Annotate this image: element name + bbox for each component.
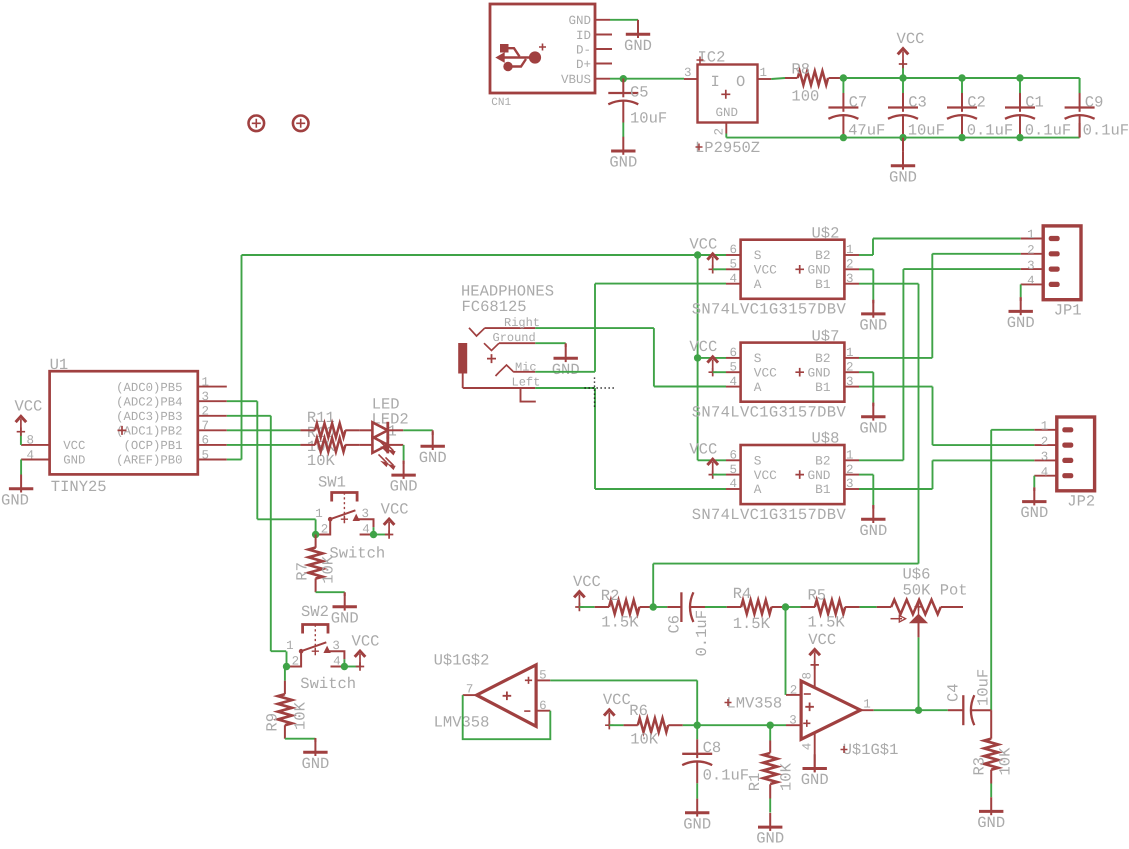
CN1 pin GND stub bbox=[595, 19, 610, 21]
svg-text:S: S bbox=[754, 454, 762, 469]
power symbol VCC at opamp bbox=[811, 661, 819, 669]
svg-text:GND: GND bbox=[807, 263, 830, 278]
regulator IC2 outline bbox=[698, 65, 758, 123]
JP1 pin 4 stub bbox=[1021, 283, 1043, 285]
capacitor C2 bbox=[961, 93, 963, 112]
svg-text:3: 3 bbox=[1041, 450, 1049, 464]
IC2 pin 2 stub bbox=[725, 123, 727, 134]
svg-text:1.5K: 1.5K bbox=[808, 614, 846, 632]
svg-text:GND: GND bbox=[807, 468, 830, 483]
U$8 pin 6 stub bbox=[726, 459, 741, 461]
wire Left net bbox=[535, 387, 595, 389]
U$2 pin 2 stub bbox=[844, 268, 859, 270]
wire junction to C6 bbox=[653, 606, 667, 608]
svg-text:2: 2 bbox=[1041, 435, 1049, 449]
svg-text:VCC: VCC bbox=[573, 573, 601, 591]
svg-text:1: 1 bbox=[863, 697, 871, 711]
JP2 pin pad 2 bbox=[1062, 443, 1073, 448]
jack tip stub bbox=[521, 388, 536, 402]
svg-text:CN1: CN1 bbox=[491, 97, 511, 109]
wire LED1 to ground bbox=[403, 429, 433, 431]
switch SW2 pin1-2 path bbox=[287, 651, 302, 666]
svg-text:SW1: SW1 bbox=[318, 473, 346, 491]
svg-text:1: 1 bbox=[846, 346, 854, 360]
svg-text:3: 3 bbox=[202, 390, 210, 404]
junction select at U$2 bbox=[694, 251, 701, 258]
junction rail/C1 bbox=[1016, 74, 1023, 81]
ground symbol at R9 bbox=[314, 738, 316, 756]
CN1 pin D- stub bbox=[595, 48, 612, 50]
svg-text:B1: B1 bbox=[815, 482, 831, 497]
wire rail to C2 bbox=[961, 78, 963, 93]
resistor R9 bbox=[284, 681, 286, 695]
power symbol VCC at R6 bbox=[605, 721, 613, 729]
capacitor C8 bbox=[696, 739, 698, 758]
CN1 pin VBUS stub bbox=[595, 78, 610, 80]
switch SW2 bracket bbox=[303, 625, 328, 634]
svg-text:GND: GND bbox=[331, 609, 359, 627]
svg-text:(ADC0)PB5: (ADC0)PB5 bbox=[116, 381, 182, 395]
svg-text:C1: C1 bbox=[1025, 94, 1044, 112]
svg-text:GND: GND bbox=[419, 449, 447, 467]
JP2 pin 4 stub bbox=[1034, 475, 1057, 477]
U$1G$1 pin1 stub bbox=[861, 709, 874, 711]
svg-text:U$8: U$8 bbox=[812, 430, 840, 448]
junction SW2 right bbox=[341, 663, 348, 670]
svg-text:IC2: IC2 bbox=[698, 49, 726, 67]
svg-text:GND: GND bbox=[859, 317, 887, 335]
capacitor C1 bbox=[1019, 93, 1021, 112]
svg-text:GND: GND bbox=[683, 815, 711, 833]
svg-text:VCC: VCC bbox=[754, 365, 777, 380]
JP2 pin pad 4 bbox=[1062, 473, 1073, 478]
switch SW1 bracket bbox=[332, 493, 357, 502]
resistor R6 bbox=[624, 724, 638, 726]
wire junction to opamp pin2 bbox=[785, 607, 787, 695]
svg-text:6: 6 bbox=[539, 699, 547, 713]
svg-text:U$1G$2: U$1G$2 bbox=[434, 651, 490, 669]
switch SW1 lever bbox=[330, 510, 355, 519]
svg-text:Switch: Switch bbox=[300, 675, 356, 693]
capacitor C7 bbox=[842, 93, 844, 112]
ground symbol at LED1 bbox=[432, 432, 434, 450]
wire VCC to R2 bbox=[579, 606, 594, 608]
wire U$7 pin2 to ground bbox=[859, 371, 873, 373]
svg-text:0.1uF: 0.1uF bbox=[703, 767, 750, 785]
U1 pin 4 stub bbox=[21, 459, 49, 461]
op-amp U$1G$1 bbox=[801, 681, 860, 739]
svg-text:0.1uF: 0.1uF bbox=[1025, 122, 1072, 140]
wire R3 to ground bbox=[990, 784, 992, 798]
U$7 pin 5 stub bbox=[726, 371, 741, 373]
wire rail to C9 bbox=[1079, 78, 1081, 93]
U$6 wiper bbox=[918, 607, 920, 615]
USB icon inside CN1 bbox=[496, 44, 546, 71]
junction R1/pin3 bbox=[767, 722, 774, 729]
svg-text:1.5K: 1.5K bbox=[733, 615, 771, 633]
svg-text:I: I bbox=[711, 73, 720, 91]
wire C9 bottom to rail bbox=[1079, 123, 1081, 138]
wire rail drop to C9 bbox=[1079, 78, 1081, 93]
svg-text:3: 3 bbox=[1027, 259, 1035, 273]
power symbol VCC at SW2 bbox=[356, 662, 364, 670]
wire U$1G$2 feedback bbox=[463, 695, 551, 739]
svg-text:C7: C7 bbox=[849, 94, 868, 112]
svg-text:GND: GND bbox=[1007, 314, 1035, 332]
svg-text:C3: C3 bbox=[908, 94, 927, 112]
svg-text:1: 1 bbox=[846, 243, 854, 257]
svg-text:4: 4 bbox=[729, 375, 737, 389]
wire Ground net bbox=[535, 342, 565, 344]
svg-text:2: 2 bbox=[846, 258, 854, 272]
resistor R5 bbox=[801, 606, 816, 608]
svg-text:U$1G$1: U$1G$1 bbox=[843, 741, 899, 759]
svg-text:3: 3 bbox=[362, 507, 370, 521]
wire SW2 feed horizontal bbox=[271, 650, 286, 652]
U$8 pin 3 stub bbox=[844, 488, 859, 490]
wire select vertical to U$7/U$8 bbox=[697, 255, 699, 460]
svg-text:SN74LVC1G3157DBV: SN74LVC1G3157DBV bbox=[692, 403, 847, 421]
wire U$8 A horizontal bbox=[595, 488, 726, 490]
wire pot wiper to output bbox=[918, 637, 920, 710]
ground symbol at R3 bbox=[990, 797, 992, 815]
LED2 light arrows bbox=[379, 454, 395, 468]
U$1G$1 name origin cross bbox=[841, 746, 848, 753]
ground symbol under C5 bbox=[622, 137, 624, 155]
wire SW2 pin2 drop bbox=[286, 651, 288, 666]
resistor R10 bbox=[300, 444, 315, 446]
svg-text:GND: GND bbox=[301, 755, 329, 773]
svg-text:GND: GND bbox=[390, 478, 418, 496]
wire U$2 B1 vertical bbox=[918, 284, 920, 564]
svg-text:LMV358: LMV358 bbox=[726, 694, 782, 712]
svg-text:GND: GND bbox=[552, 361, 580, 379]
resistor R8 bbox=[785, 77, 797, 79]
power symbol VCC at rail bbox=[902, 64, 904, 78]
svg-text:8: 8 bbox=[800, 672, 814, 680]
ground wire U$8 bbox=[872, 505, 874, 508]
svg-text:B2: B2 bbox=[815, 248, 830, 263]
svg-text:4: 4 bbox=[1041, 465, 1049, 479]
svg-text:GND: GND bbox=[1, 491, 29, 509]
svg-text:2: 2 bbox=[846, 463, 854, 477]
svg-text:A: A bbox=[754, 380, 762, 395]
wire R9 to ground bbox=[285, 738, 316, 740]
wire junction to R5 bbox=[786, 606, 801, 608]
sheet origin dotted cross bbox=[585, 378, 616, 408]
wire U$2 B2 to JP1 pin1 bbox=[859, 254, 873, 256]
svg-text:U$7: U$7 bbox=[812, 327, 840, 345]
wire SW2 feed vertical bbox=[270, 416, 272, 651]
svg-text:GND: GND bbox=[624, 37, 652, 55]
svg-text:10uF: 10uF bbox=[908, 122, 945, 140]
svg-text:3: 3 bbox=[789, 713, 797, 727]
wire Right net bbox=[535, 327, 654, 329]
U$8 pin 5 stub bbox=[726, 474, 741, 476]
IC2 value origin cross bbox=[696, 144, 703, 151]
svg-text:A: A bbox=[754, 482, 762, 497]
switch SW1 pin3-4 path bbox=[356, 519, 373, 527]
wire U$8 pin2 to ground bbox=[859, 474, 873, 476]
capacitor C5 bbox=[622, 79, 624, 98]
svg-text:VCC: VCC bbox=[689, 338, 717, 356]
svg-text:2: 2 bbox=[202, 405, 210, 419]
U$1G$1 pin4 wire bbox=[814, 733, 816, 773]
svg-text:4: 4 bbox=[729, 272, 737, 286]
junction rail/C2 bbox=[958, 74, 965, 81]
U$1G$1 origin cross bbox=[805, 703, 814, 712]
ground wire U$7 bbox=[872, 403, 874, 406]
svg-text:SN74LVC1G3157DBV: SN74LVC1G3157DBV bbox=[692, 506, 847, 524]
ground wire jack bbox=[565, 343, 567, 347]
svg-text:A: A bbox=[754, 277, 762, 292]
wire SW1 pin2 drop bbox=[315, 519, 317, 534]
junction select at U$7 bbox=[694, 354, 701, 361]
svg-text:50K Pot: 50K Pot bbox=[903, 581, 968, 599]
svg-text:(OCP)PB1: (OCP)PB1 bbox=[123, 439, 182, 453]
switch SW1 pin1-2 path bbox=[316, 519, 331, 534]
svg-text:4: 4 bbox=[1027, 274, 1035, 288]
svg-text:JP1: JP1 bbox=[1054, 302, 1082, 320]
switch SW2 pin3-4 path bbox=[327, 651, 344, 659]
svg-text:B1: B1 bbox=[815, 277, 831, 292]
wire JP2 pin4 to ground bbox=[1033, 476, 1035, 488]
wire U1 PB0 to select net bbox=[227, 459, 242, 461]
wire SW1 feed vertical bbox=[256, 401, 258, 519]
svg-text:R5: R5 bbox=[808, 587, 827, 605]
U$2 pin 6 stub bbox=[726, 254, 741, 256]
svg-text:R2: R2 bbox=[601, 587, 620, 605]
JP1 pin pad 3 bbox=[1049, 267, 1060, 272]
switch SW2 pin3 contact bbox=[324, 647, 329, 652]
IC2 internal cross bbox=[721, 90, 730, 99]
svg-text:GND: GND bbox=[977, 814, 1005, 832]
wire C5 to ground bbox=[622, 123, 624, 138]
jack origin cross bbox=[487, 354, 496, 363]
svg-text:6: 6 bbox=[202, 434, 210, 448]
U$7 pin 6 stub bbox=[726, 357, 741, 359]
svg-text:S: S bbox=[754, 351, 762, 366]
svg-text:R8: R8 bbox=[791, 61, 810, 79]
svg-text:VCC: VCC bbox=[808, 631, 836, 649]
ground symbol under C3 bbox=[902, 152, 904, 170]
JP1 pin 1 stub bbox=[1021, 238, 1043, 240]
jack Left contact bbox=[462, 374, 464, 389]
svg-text:VCC: VCC bbox=[14, 398, 42, 416]
wire U1 PB2 to R11 bbox=[227, 429, 301, 431]
JP2 pin pad 1 bbox=[1062, 427, 1073, 432]
U$7 pin 4 stub bbox=[726, 386, 741, 388]
svg-text:6: 6 bbox=[729, 243, 737, 257]
U$7 pin 3 stub bbox=[844, 386, 859, 388]
svg-text:1: 1 bbox=[760, 66, 768, 80]
svg-text:R7: R7 bbox=[293, 562, 311, 581]
wire VCC to U$8 pin5 bbox=[713, 474, 726, 476]
svg-text:10K: 10K bbox=[997, 747, 1015, 776]
wire select to U$8 pin6 bbox=[698, 459, 726, 461]
ground symbol at U$8 bbox=[872, 505, 874, 523]
ground wire R7 bbox=[344, 592, 346, 596]
svg-text:U1: U1 bbox=[50, 356, 69, 374]
svg-text:C6: C6 bbox=[666, 615, 684, 634]
wire select net horizontal bbox=[242, 254, 698, 256]
svg-text:R1: R1 bbox=[746, 773, 764, 792]
svg-text:3: 3 bbox=[684, 66, 692, 80]
svg-text:Right: Right bbox=[504, 316, 540, 330]
JP2 pin pad 3 bbox=[1062, 458, 1073, 463]
U$8 origin cross bbox=[795, 470, 804, 479]
JP2 pin 2 stub bbox=[1034, 444, 1057, 446]
capacitor C6 bbox=[667, 606, 681, 608]
wire U1 PB3 to SW2 bbox=[227, 415, 271, 417]
svg-text:6: 6 bbox=[729, 346, 737, 360]
switch SW1 actuator dashed line bbox=[343, 493, 345, 524]
U$2 pin 3 stub bbox=[844, 283, 859, 285]
wire top VCC rail bbox=[843, 77, 1079, 79]
U$1G$2 pin7 stub bbox=[463, 694, 477, 696]
JP1 pin 2 stub bbox=[1021, 253, 1043, 255]
svg-text:47uF: 47uF bbox=[848, 122, 885, 140]
wire SW1 feed horizontal bbox=[257, 518, 315, 520]
wire rail to C1 bbox=[1019, 78, 1021, 93]
wire U1 PB1 to R10 bbox=[227, 444, 301, 446]
U1 pin 5 stub bbox=[198, 459, 227, 461]
JP1 pin pad 4 bbox=[1049, 282, 1060, 287]
wire R1 drop bbox=[769, 725, 771, 740]
svg-text:C8: C8 bbox=[703, 739, 722, 757]
svg-text:5: 5 bbox=[539, 668, 547, 682]
svg-text:1: 1 bbox=[846, 449, 854, 463]
IC2 pin 3 stub bbox=[684, 78, 698, 80]
led LED2 bbox=[360, 444, 373, 446]
svg-text:4: 4 bbox=[729, 477, 737, 491]
ground wire LED2 bbox=[403, 460, 405, 464]
svg-text:LMV358: LMV358 bbox=[434, 713, 490, 731]
resistor R2 bbox=[595, 606, 609, 608]
switch SW2 actuator dashed line bbox=[314, 625, 316, 656]
wire JP1 pin4 to ground bbox=[1020, 284, 1022, 297]
svg-text:4: 4 bbox=[362, 523, 370, 537]
svg-text:6: 6 bbox=[729, 449, 737, 463]
wire Mic to U$2 A vertical bbox=[594, 284, 596, 372]
JP1 pin 3 stub bbox=[1021, 268, 1043, 270]
ground symbol at U$2 bbox=[872, 300, 874, 318]
svg-text:VCC: VCC bbox=[381, 501, 409, 519]
ground wire JP2 bbox=[1033, 487, 1035, 491]
svg-text:GND: GND bbox=[859, 419, 887, 437]
U$1G$2 minus mark bbox=[524, 710, 530, 712]
wire JP2 pin1 to output bbox=[991, 429, 1034, 431]
jack sleeve bbox=[458, 343, 467, 374]
junction rail/C7 bbox=[840, 74, 847, 81]
svg-text:1: 1 bbox=[286, 639, 294, 653]
svg-text:TINY25: TINY25 bbox=[51, 478, 107, 496]
svg-text:VCC: VCC bbox=[754, 263, 777, 278]
svg-text:100: 100 bbox=[791, 87, 819, 105]
svg-text:5: 5 bbox=[202, 448, 210, 462]
led LED1 bbox=[360, 429, 373, 431]
ic U$2 outline bbox=[741, 240, 845, 299]
IC2 pin 1 stub bbox=[758, 78, 772, 80]
svg-text:2: 2 bbox=[790, 683, 798, 697]
resistor R3 bbox=[990, 710, 992, 739]
wire SW2 pin34 to vcc bbox=[343, 659, 345, 666]
ic U1 outline bbox=[50, 371, 198, 474]
svg-text:3: 3 bbox=[846, 272, 854, 286]
mounting hole H2 bbox=[293, 116, 309, 132]
wire select to U$7 pin6 bbox=[698, 357, 726, 359]
svg-text:VCC: VCC bbox=[63, 439, 85, 453]
wire R5 to pot bbox=[860, 606, 877, 608]
wire VCC to R6 bbox=[609, 724, 623, 726]
U$1G$2 plus mark bbox=[525, 677, 532, 684]
connector JP2 outline bbox=[1057, 417, 1095, 491]
U$6 origin cross bbox=[915, 603, 923, 611]
power symbol VCC at U$8 bbox=[709, 470, 717, 478]
svg-text:5: 5 bbox=[729, 360, 737, 374]
svg-text:7: 7 bbox=[466, 683, 474, 697]
wire VCC to U$2 pin5 bbox=[713, 268, 726, 270]
junction bottom/C7 bbox=[840, 134, 847, 141]
U1 pin 3 stub bbox=[198, 400, 227, 402]
wire U1 pin4 to ground bbox=[20, 460, 22, 475]
wire C8 drop bbox=[696, 725, 698, 739]
U$1G$1 pin2 stub bbox=[786, 694, 801, 696]
wire U$7 B1 to JP2 pin2 bbox=[859, 386, 933, 388]
wire Right to U$7 A bbox=[653, 328, 655, 386]
svg-text:R3: R3 bbox=[971, 757, 989, 776]
junction SW1 left bbox=[312, 531, 319, 538]
U$7 pin 2 stub bbox=[844, 371, 859, 373]
power symbol VCC at U1 bbox=[17, 428, 25, 436]
U$2 pin 5 stub bbox=[726, 268, 741, 270]
svg-text:R4: R4 bbox=[733, 585, 752, 603]
U1 origin cross bbox=[118, 426, 127, 435]
ground symbol at R7 bbox=[344, 593, 346, 611]
wire U$8 B2 to JP1 pin3 bbox=[859, 459, 903, 461]
svg-text:0.1uF: 0.1uF bbox=[1083, 122, 1129, 140]
JP1 pin pad 2 bbox=[1049, 251, 1060, 256]
wire LED2 to ground bbox=[403, 445, 405, 461]
svg-text:R6: R6 bbox=[629, 702, 648, 720]
wire select net vertical bbox=[241, 255, 243, 460]
svg-text:VCC: VCC bbox=[689, 235, 717, 253]
wire U$7 B2 to JP1 pin2 bbox=[859, 357, 932, 359]
svg-text:D-: D- bbox=[576, 43, 591, 57]
wire B1 to R2 junction bbox=[653, 563, 918, 565]
wire U1 pin8 to VCC bbox=[20, 432, 22, 445]
ground symbol under U1 bbox=[20, 475, 22, 493]
svg-text:4: 4 bbox=[800, 743, 814, 751]
svg-text:2: 2 bbox=[1027, 244, 1035, 258]
connector CN1 (USB) outline bbox=[490, 4, 595, 93]
junction R4/R5 bbox=[782, 603, 789, 610]
U$1G$1 minus mark bbox=[804, 693, 811, 695]
svg-text:LP2950Z: LP2950Z bbox=[695, 139, 760, 157]
U$2 origin cross bbox=[795, 265, 804, 274]
CN1 pin D+ stub bbox=[595, 63, 612, 65]
svg-text:B2: B2 bbox=[815, 454, 830, 469]
svg-text:10K: 10K bbox=[778, 762, 796, 791]
U$1G$1 pin8 wire bbox=[814, 665, 816, 688]
wire C6 to R4 bbox=[705, 606, 727, 608]
svg-text:(AREF)PB0: (AREF)PB0 bbox=[116, 454, 182, 468]
svg-text:VCC: VCC bbox=[897, 30, 925, 48]
svg-text:1: 1 bbox=[1027, 228, 1035, 242]
wire SW2 to R9 bbox=[284, 666, 286, 680]
U$7 pin 1 stub bbox=[844, 357, 859, 359]
svg-text:GND: GND bbox=[568, 14, 591, 28]
